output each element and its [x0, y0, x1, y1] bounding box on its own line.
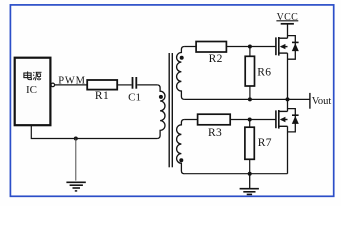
- wire gate run top: winding to R2 to junction to Q1 gate: [184, 46, 276, 48]
- ground right: [240, 174, 259, 195]
- node Vout terminal: [309, 93, 311, 109]
- transistor Q1 N-MOSFET: [276, 24, 288, 100]
- polarity dot secondary 1: [180, 56, 184, 60]
- diode D2 body diode of Q2: [288, 109, 299, 132]
- wire output rail top secondary to Vout: [184, 98, 309, 100]
- junction primary ground node: [74, 137, 78, 141]
- ground left: [66, 182, 85, 191]
- junction R3-R7-gate node: [248, 118, 252, 122]
- label 电源 (power supply): [24, 71, 42, 80]
- wire R6 column: [249, 47, 251, 100]
- svg-text:R2: R2: [209, 53, 223, 65]
- junction R7 bottom ground node: [248, 172, 252, 176]
- wire R7 column: [249, 120, 251, 174]
- transistor Q2 N-MOSFET: [276, 99, 288, 173]
- svg-text:Vout: Vout: [312, 96, 332, 107]
- arrow Q2 body: [280, 117, 286, 122]
- polarity dot secondary 2: [179, 158, 183, 162]
- arrow Q1 body: [280, 44, 286, 49]
- wire bottom source rail: [184, 173, 287, 175]
- svg-text:R3: R3: [208, 127, 222, 139]
- resistor R2: [196, 42, 226, 53]
- wire R1 to C1: [117, 84, 131, 86]
- svg-text:R1: R1: [95, 90, 109, 102]
- diode D1 body diode of Q1: [288, 36, 299, 60]
- junction R2-R6-gate node: [248, 45, 252, 49]
- IC U1 power-supply IC box: [15, 58, 51, 126]
- svg-text:IC: IC: [26, 84, 37, 96]
- transformer core: [169, 53, 172, 167]
- transformer T1 secondary winding 2: [177, 120, 185, 174]
- transformer T1 primary winding: [157, 85, 165, 139]
- wire PWM to R1: [55, 84, 87, 86]
- wire gate run bottom: winding to R3 to junction to Q2 gate: [184, 119, 276, 121]
- polarity dot primary: [159, 95, 163, 99]
- resistor R6: [245, 56, 254, 86]
- pin PWM output circle: [51, 83, 55, 87]
- junction R6 bottom rail node: [248, 97, 252, 101]
- wire junction down to ground: [75, 139, 77, 181]
- svg-text:R7: R7: [258, 137, 272, 149]
- svg-text:R6: R6: [257, 67, 271, 79]
- resistor R1: [87, 80, 117, 90]
- resistor R3: [198, 114, 231, 125]
- wire C1 to transformer primary: [137, 84, 157, 86]
- svg-text:C1: C1: [128, 92, 141, 104]
- resistor R7: [245, 127, 254, 159]
- transformer T1 secondary winding 1: [177, 47, 185, 100]
- junction rail drain node: [286, 97, 290, 101]
- wire primary bottom to IC ground run: [31, 125, 157, 138]
- capacitor C1: [133, 77, 137, 89]
